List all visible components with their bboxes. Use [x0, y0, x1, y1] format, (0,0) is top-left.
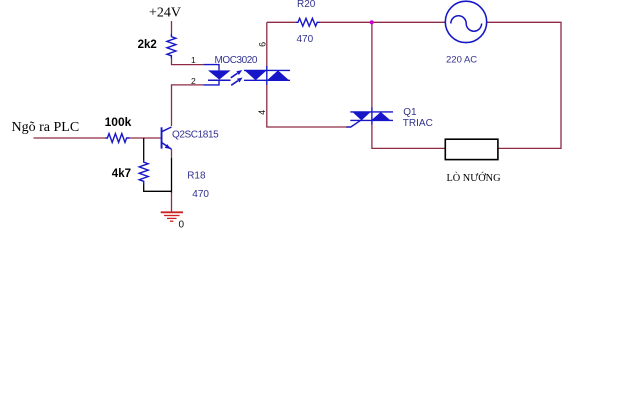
svg-text:100k: 100k	[105, 115, 132, 129]
svg-text:1: 1	[191, 55, 196, 65]
svg-text:TRIAC: TRIAC	[403, 118, 433, 129]
svg-text:470: 470	[192, 189, 209, 200]
svg-text:R20: R20	[297, 0, 316, 10]
svg-text:0: 0	[179, 220, 185, 231]
svg-text:4: 4	[257, 110, 267, 115]
svg-text:2k2: 2k2	[138, 39, 157, 51]
svg-text:Q2SC1815: Q2SC1815	[172, 129, 219, 140]
svg-text:4k7: 4k7	[112, 168, 131, 180]
svg-text:+24V: +24V	[149, 6, 181, 21]
svg-text:Q1: Q1	[403, 107, 417, 118]
svg-text:R18: R18	[187, 171, 206, 182]
svg-text:470: 470	[297, 34, 314, 45]
svg-text:2: 2	[191, 76, 196, 86]
svg-text:LÒ NƯỚNG: LÒ NƯỚNG	[447, 172, 502, 184]
svg-text:220 AC: 220 AC	[446, 55, 477, 66]
svg-text:Ngõ ra PLC: Ngõ ra PLC	[12, 120, 80, 135]
svg-text:6: 6	[258, 42, 268, 47]
svg-text:MOC3020: MOC3020	[215, 55, 258, 66]
